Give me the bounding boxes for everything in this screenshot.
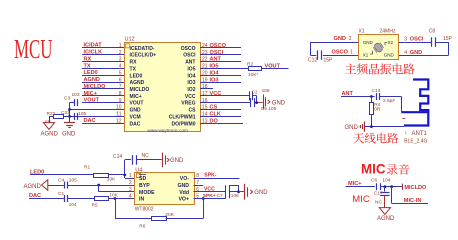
svg-text:VCC: VCC [204, 186, 215, 192]
svg-text:DO/PWM0: DO/PWM0 [172, 121, 196, 127]
svg-text:C4: C4 [58, 177, 64, 183]
svg-text:C13: C13 [372, 88, 381, 94]
svg-text:24MHz: 24MHz [380, 29, 396, 35]
svg-text:R22: R22 [47, 111, 56, 117]
svg-text:SPK-: SPK- [204, 172, 217, 178]
svg-text:C14: C14 [113, 154, 122, 160]
svg-text:DAC: DAC [84, 118, 96, 124]
svg-text:IO4: IO4 [187, 73, 195, 79]
junction R4-GND [370, 125, 373, 128]
value box 106 [229, 185, 238, 192]
svg-text:OSCO: OSCO [332, 49, 349, 55]
svg-text:OSCI: OSCI [410, 37, 424, 43]
svg-text:X2: X2 [388, 40, 394, 45]
antenna ANT1 labels [404, 131, 427, 144]
svg-text:VREG: VREG [181, 101, 195, 107]
wire C4 to U4 pin2 [67, 185, 134, 187]
svg-text:OSCO: OSCO [210, 43, 227, 49]
svg-text:4: 4 [404, 50, 407, 56]
antenna ANT1 meander [401, 80, 428, 127]
svg-text:GND: GND [384, 53, 395, 58]
svg-text:9: 9 [119, 98, 122, 104]
svg-text:3: 3 [119, 57, 122, 63]
crystal X1 body [359, 29, 399, 60]
port MICLDO [403, 184, 428, 192]
svg-text:3: 3 [129, 187, 132, 193]
net GND pin4 [404, 50, 422, 56]
ground GND left cluster [62, 123, 76, 138]
junction ANT-R4 [370, 95, 373, 98]
svg-text:13: 13 [202, 118, 208, 124]
svg-text:ANT: ANT [210, 57, 222, 63]
svg-text:ICIDAT: ICIDAT [84, 43, 103, 49]
svg-text:10: 10 [116, 105, 122, 111]
net GND pin2 [334, 36, 352, 42]
svg-text:3: 3 [404, 37, 407, 43]
wire BYP to MODE pin3 [99, 185, 135, 192]
U12 right pin wires and net labels [200, 43, 251, 125]
wire R5 to U4 pin4 [109, 198, 134, 200]
junction C17 branch [384, 185, 387, 188]
MCU IC U12 body [125, 37, 201, 132]
crystal X1 inner labels [363, 40, 395, 58]
svg-text:MIC+: MIC+ [130, 94, 142, 100]
svg-text:GND: GND [345, 125, 359, 131]
svg-text:U12: U12 [125, 37, 135, 43]
wire C1 to R5 [67, 198, 94, 200]
resistor R1 10K [84, 164, 116, 182]
wire crystal left loop [310, 42, 358, 55]
svg-text:12: 12 [116, 118, 122, 124]
svg-text:AGND: AGND [41, 132, 59, 138]
svg-text:103: 103 [72, 92, 80, 98]
svg-text:VCM: VCM [130, 115, 141, 121]
svg-text:CLK: CLK [210, 112, 221, 118]
capacitor C2 106 [250, 88, 270, 100]
svg-text:CLK/PWM1: CLK/PWM1 [169, 115, 196, 121]
power gnd C7 [245, 184, 269, 200]
wire C13 to antenna [380, 97, 402, 112]
net OSCI pin3 [404, 37, 424, 43]
svg-text:LED0: LED0 [84, 70, 98, 76]
svg-text:GND: GND [170, 158, 184, 164]
AGND symbol left cluster [41, 123, 59, 138]
svg-text:DO: DO [210, 118, 219, 124]
svg-text:105: 105 [69, 177, 77, 183]
svg-text:VO-: VO- [180, 176, 189, 182]
svg-text:5: 5 [119, 70, 122, 76]
capacitor C12 15P [308, 50, 333, 63]
svg-text:R2: R2 [247, 61, 253, 67]
U12 left pin wires and net labels [70, 43, 125, 125]
svg-text:ANT: ANT [185, 60, 196, 66]
svg-text:GND: GND [62, 131, 76, 137]
U4 pin names and numbers [129, 173, 199, 212]
title crystal [345, 63, 415, 74]
svg-text:10K: 10K [109, 192, 118, 198]
capacitor C6 104 [371, 178, 391, 191]
svg-text:2: 2 [119, 50, 122, 56]
svg-text:IO3: IO3 [187, 80, 195, 86]
svg-text:15: 15 [202, 105, 208, 111]
junction MIC-IN branch [390, 185, 393, 188]
svg-text:C1: C1 [58, 191, 64, 197]
svg-text:AGND: AGND [377, 216, 395, 222]
svg-text:C17: C17 [374, 191, 383, 197]
svg-text:CS: CS [210, 105, 218, 111]
svg-text:19: 19 [202, 77, 208, 83]
label MIC [352, 194, 370, 205]
wire C14 branch [125, 160, 132, 175]
svg-text:Vdd: Vdd [179, 190, 189, 196]
antenna pin marks [402, 119, 408, 136]
svg-text:R6: R6 [139, 224, 145, 230]
capacitor C13 2.5pF [372, 88, 396, 104]
wire C17 to AGND [384, 195, 386, 207]
crystal glyph [370, 42, 387, 54]
svg-text:21: 21 [202, 64, 208, 70]
capacitor C5 105 [251, 98, 277, 112]
capacitor C21 105 [61, 110, 87, 120]
svg-text:R5: R5 [92, 203, 98, 209]
svg-text:104: 104 [382, 178, 390, 184]
resistor R6 20K [139, 212, 174, 229]
svg-text:IN: IN [139, 197, 144, 203]
svg-text:MODE: MODE [139, 190, 155, 196]
svg-text:R1: R1 [84, 164, 90, 170]
svg-text:AGND: AGND [130, 80, 145, 86]
junction VO+ feedback [202, 197, 205, 200]
capacitor C3 103 [64, 92, 80, 106]
svg-text:IO4: IO4 [210, 70, 220, 76]
svg-text:15P: 15P [324, 58, 334, 64]
svg-text:ICEDAT/D-: ICEDAT/D- [130, 46, 155, 52]
svg-text:22: 22 [202, 57, 208, 63]
title MIC [361, 161, 409, 177]
svg-text:ICECLK/D+: ICECLK/D+ [130, 53, 157, 59]
svg-text:VOUT: VOUT [265, 64, 281, 70]
junction C7 gnd [237, 190, 244, 193]
wire caps to gnd [252, 96, 262, 105]
svg-text:1: 1 [350, 49, 353, 55]
svg-text:VOUT: VOUT [84, 98, 100, 104]
svg-text:2: 2 [349, 36, 352, 42]
wire crystal right top [399, 42, 431, 44]
svg-text:105: 105 [78, 111, 86, 117]
net SPK- wire [194, 172, 240, 178]
wire AGND to C4 [48, 185, 64, 187]
svg-text:C6: C6 [371, 178, 377, 184]
svg-text:DAC: DAC [130, 121, 141, 127]
resistor R2 10K [247, 61, 262, 78]
svg-text:MICLDO: MICLDO [84, 84, 107, 90]
svg-text:VCC: VCC [185, 94, 196, 100]
junction pin10 [68, 108, 71, 111]
svg-text:106: 106 [231, 193, 239, 199]
svg-text:106: 106 [262, 88, 270, 94]
title antenna [353, 133, 398, 144]
svg-text:BLE_2.4G: BLE_2.4G [404, 139, 427, 145]
wire C14 to GND [136, 159, 162, 161]
audio amp U4 body [135, 167, 195, 204]
svg-text:NC: NC [375, 199, 382, 205]
svg-text:MIC: MIC [361, 161, 386, 177]
wire to R6 [115, 199, 151, 219]
wire R1 to U4 pin1 [109, 175, 135, 179]
svg-text:RX: RX [84, 56, 92, 62]
net SPK+ wire [194, 193, 226, 199]
svg-text:VCC: VCC [210, 91, 222, 97]
svg-text:MCU: MCU [14, 34, 53, 64]
net LED0 bottom [30, 169, 93, 175]
capacitor C17 NC [374, 187, 390, 206]
power gnd VCC cluster [264, 95, 286, 110]
svg-text:24: 24 [202, 43, 208, 49]
svg-text:GND: GND [410, 50, 422, 56]
svg-text:10K*: 10K* [248, 72, 259, 78]
svg-text:2.5pF: 2.5pF [383, 98, 395, 104]
wire U4 pin7 stub [194, 185, 204, 187]
svg-text:LED0: LED0 [130, 73, 143, 79]
resistor R4 0R [370, 97, 381, 127]
svg-text:C3: C3 [64, 96, 70, 102]
svg-text:14: 14 [202, 112, 208, 118]
net MIC+ label [346, 181, 375, 187]
svg-text:MIC: MIC [352, 194, 370, 205]
capacitor C7 106 [217, 185, 240, 199]
net VCC wire U4 [194, 186, 226, 192]
svg-text:MICLDO: MICLDO [404, 185, 427, 191]
junction R6 branch [114, 197, 117, 200]
ground GND antenna [345, 122, 365, 132]
svg-text:4: 4 [119, 64, 122, 70]
svg-text:ICICLK: ICICLK [84, 50, 103, 56]
svg-text:OSCI: OSCI [210, 50, 224, 56]
wire GND to antenna [365, 126, 404, 128]
svg-text:GND: GND [254, 190, 268, 196]
svg-text:16: 16 [202, 98, 208, 104]
svg-text:OSCI: OSCI [183, 53, 196, 59]
svg-text:X1: X1 [359, 29, 365, 35]
svg-text:VO+: VO+ [178, 197, 189, 203]
wire ANT to C13 [371, 96, 374, 98]
svg-text:TX: TX [130, 66, 137, 72]
svg-text:C12: C12 [308, 58, 317, 64]
capacitor C8 15P [429, 29, 453, 47]
svg-text:GND: GND [272, 100, 286, 106]
power gnd C14 [163, 153, 185, 168]
svg-text:GND: GND [130, 108, 142, 114]
AGND symbol mic [377, 208, 395, 222]
net ANT label [341, 91, 371, 97]
net MIC-IN [392, 187, 429, 204]
svg-text:GND: GND [334, 36, 346, 42]
wire C6 to MICLDO [380, 186, 402, 188]
svg-text:ANT1: ANT1 [412, 131, 428, 137]
svg-text:IO5: IO5 [187, 66, 195, 72]
capacitor C4 105 [58, 177, 77, 188]
svg-text:TX: TX [84, 63, 91, 69]
svg-text:VOUT: VOUT [130, 101, 145, 107]
svg-text:RX: RX [130, 60, 138, 66]
wire R6 to VO+ [166, 199, 204, 219]
svg-text:0R: 0R [374, 107, 381, 113]
svg-text:SD: SD [139, 176, 146, 182]
AGND symbol U4 [24, 180, 48, 191]
wire R22 to AGND [49, 116, 51, 122]
svg-text:6: 6 [119, 77, 122, 83]
resistor R22 0R [45, 111, 70, 125]
svg-text:GND: GND [363, 40, 374, 45]
svg-text:17: 17 [202, 91, 208, 97]
resistor R5 10K [92, 192, 119, 208]
svg-text:www.waytronic.com: www.waytronic.com [148, 128, 189, 133]
svg-text:AGND: AGND [24, 184, 42, 190]
junction C14 branch [123, 174, 126, 177]
net VOUT right [262, 64, 289, 70]
svg-text:MICLDO: MICLDO [130, 87, 150, 93]
svg-text:C21: C21 [61, 110, 70, 116]
svg-text:IO3: IO3 [210, 77, 219, 83]
svg-text:BYP: BYP [139, 183, 150, 189]
svg-text:U4: U4 [135, 167, 142, 173]
svg-text:8: 8 [119, 91, 122, 97]
svg-text:1: 1 [119, 43, 122, 49]
svg-text:NC: NC [142, 153, 150, 159]
net OSCO pin1 [332, 49, 354, 55]
svg-text:7: 7 [119, 84, 122, 90]
junction R22 [68, 115, 71, 118]
svg-text:6: 6 [196, 187, 199, 193]
svg-text:18: 18 [202, 84, 208, 90]
svg-text:GND: GND [177, 183, 189, 189]
capacitor C14 NC [113, 153, 149, 164]
svg-text:OSCO: OSCO [181, 46, 196, 52]
svg-text:104: 104 [69, 202, 77, 208]
section title MCU [14, 34, 53, 64]
svg-text:20K: 20K [165, 212, 174, 218]
junction BYP-MODE [97, 184, 100, 187]
net DAC bottom [29, 193, 64, 199]
wire crystal right loop [399, 42, 449, 55]
svg-text:MIC+: MIC+ [84, 91, 98, 97]
svg-text:23: 23 [202, 50, 208, 56]
svg-text:C8: C8 [429, 29, 436, 35]
svg-text:C2: C2 [252, 90, 258, 95]
svg-text:AGND: AGND [84, 77, 100, 83]
svg-text:10K: 10K [107, 177, 116, 183]
svg-text:WT8002: WT8002 [135, 207, 154, 213]
wire VOUT-C3 corner [70, 103, 75, 123]
svg-text:CS: CS [189, 108, 197, 114]
capacitor C1 104 [58, 191, 77, 208]
U12 pin names [130, 40, 197, 133]
svg-text:IO2: IO2 [187, 87, 195, 93]
svg-text:X1: X1 [363, 53, 369, 58]
svg-text:MIC-IN: MIC-IN [404, 198, 422, 204]
svg-text:IO5: IO5 [210, 64, 219, 70]
svg-text:11: 11 [116, 112, 121, 118]
svg-text:SPK+: SPK+ [203, 193, 216, 199]
svg-text:15P: 15P [443, 36, 453, 42]
svg-text:20: 20 [202, 70, 208, 76]
